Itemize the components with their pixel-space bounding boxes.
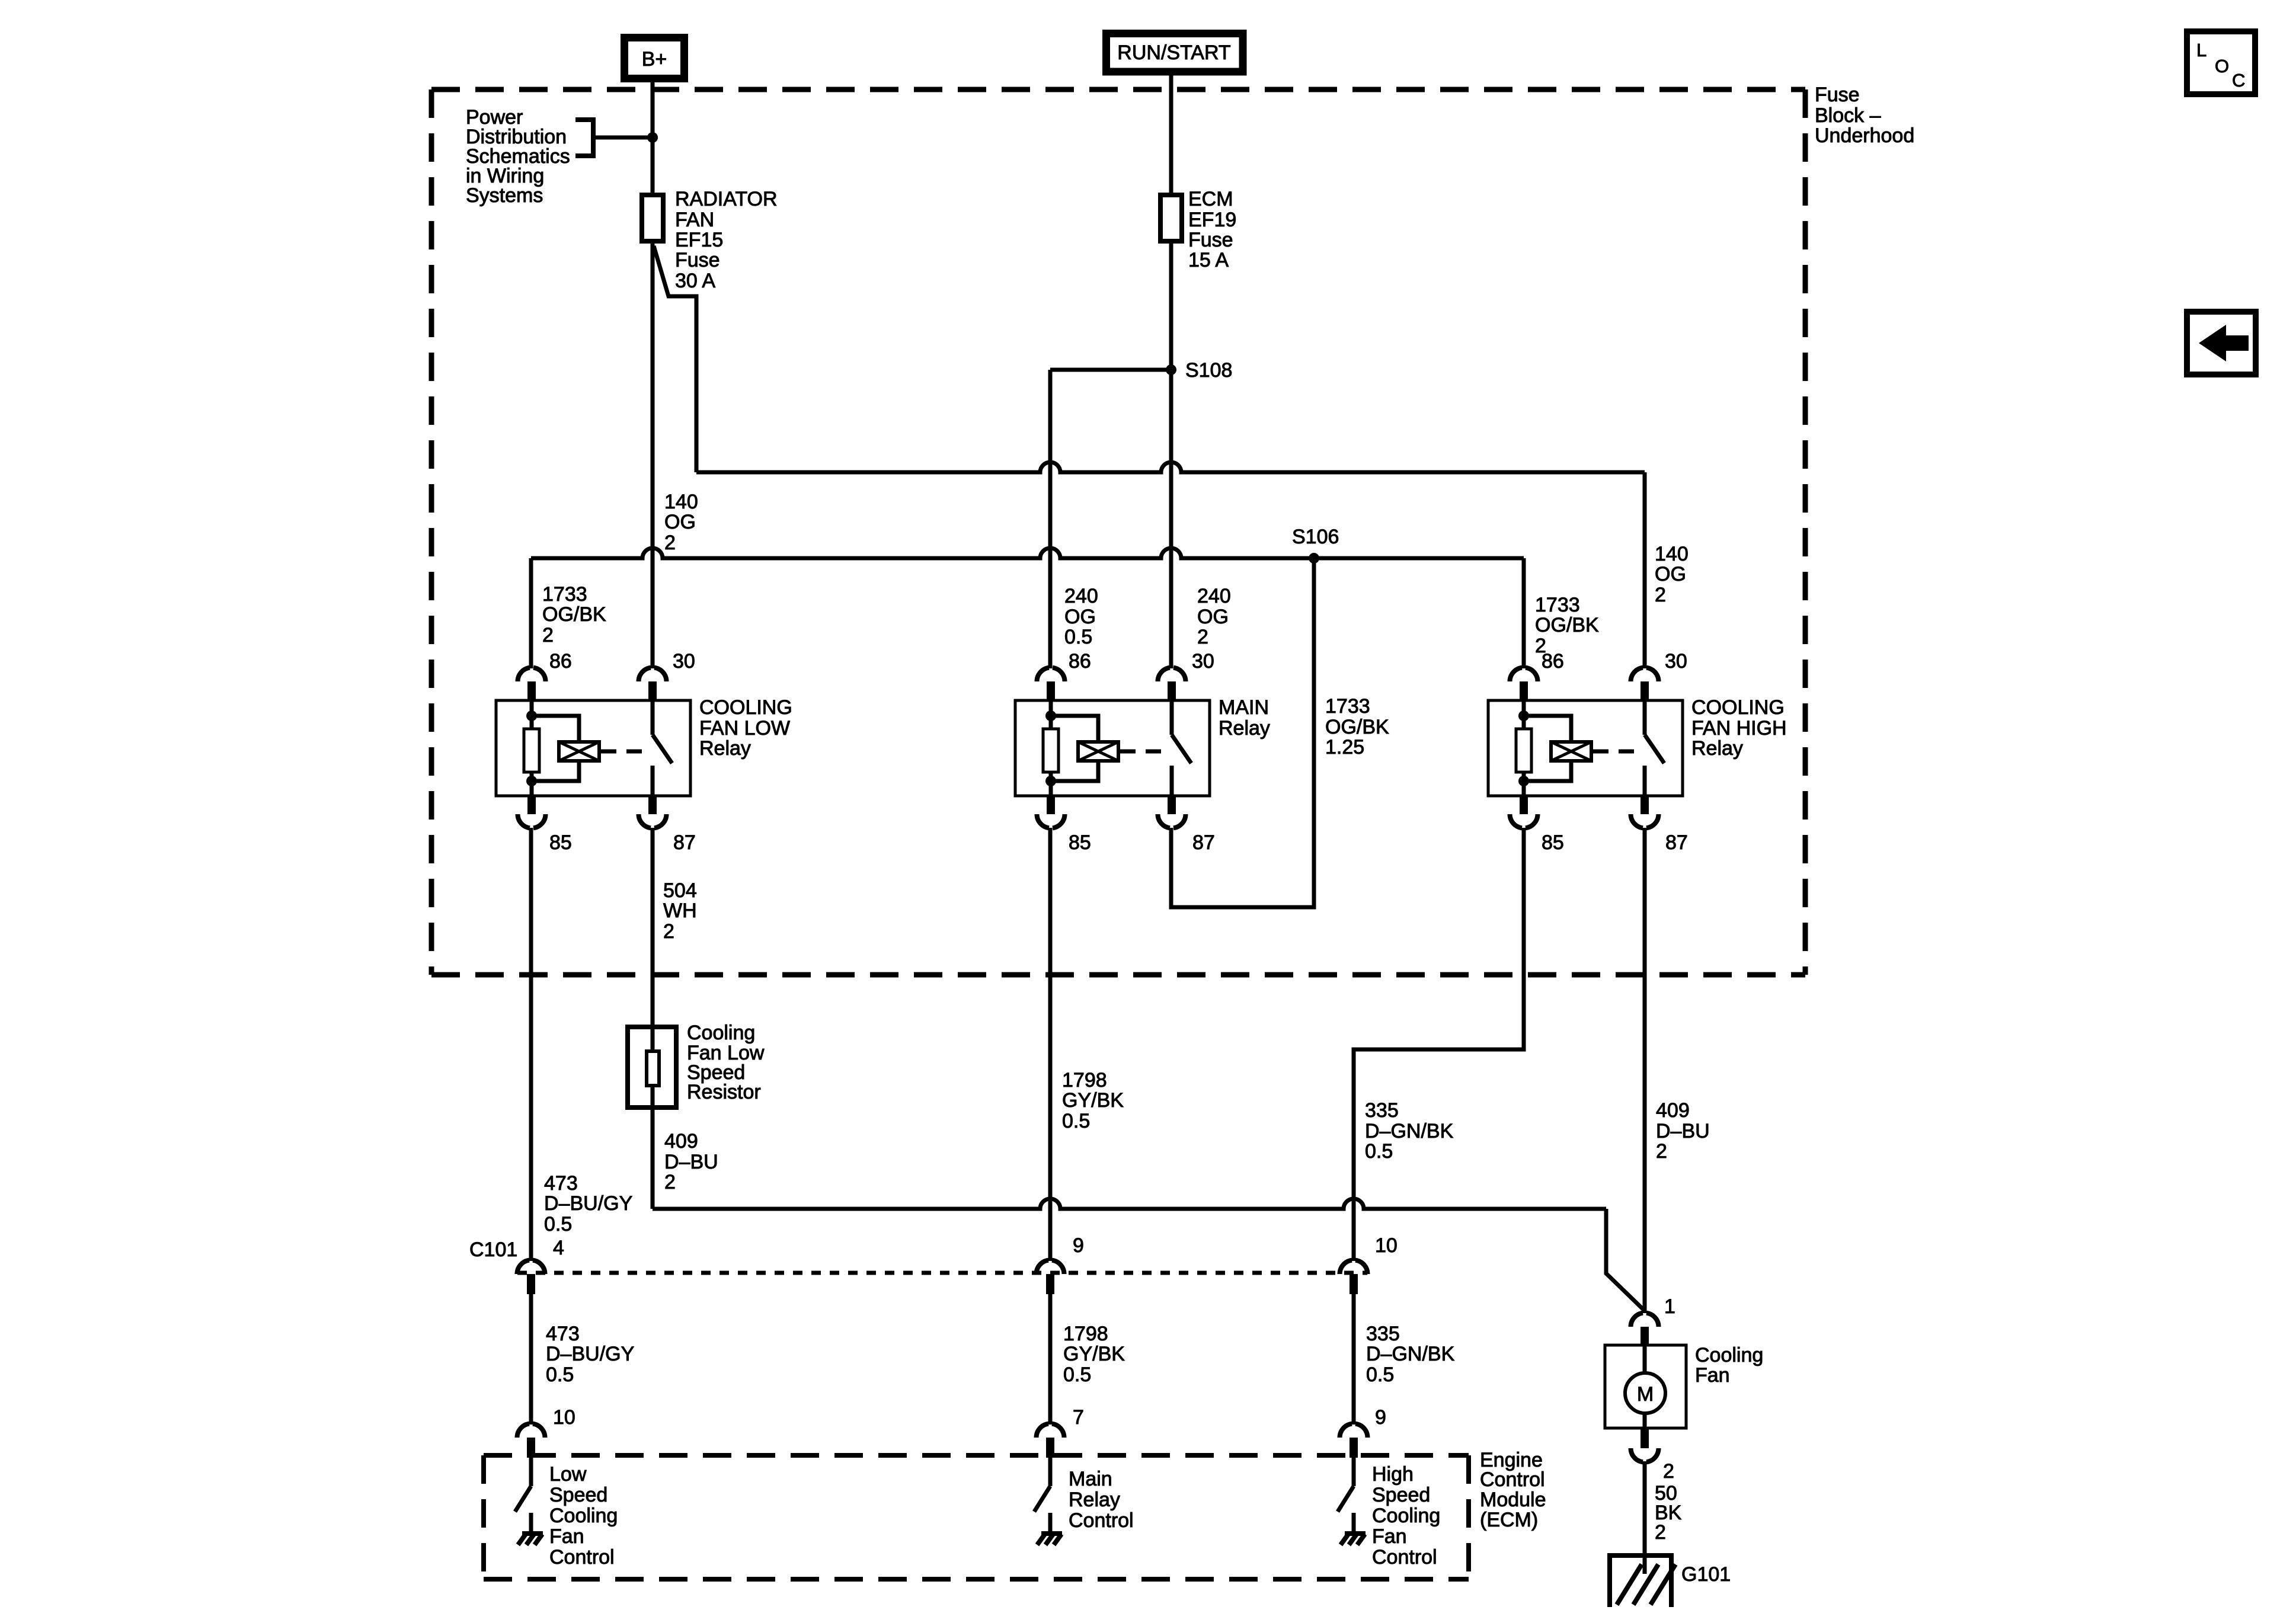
svg-text:0.5: 0.5 bbox=[1063, 1363, 1091, 1386]
label main relay K2 name bbox=[1219, 696, 1270, 740]
svg-text:1798: 1798 bbox=[1062, 1069, 1107, 1092]
relay cooling fan high relay K3 body with coil and switch bbox=[1488, 700, 1683, 796]
cooling fan low relay K1 pin 85 connector bbox=[518, 795, 572, 854]
svg-text:Cooling: Cooling bbox=[1695, 1344, 1763, 1366]
svg-text:30 A: 30 A bbox=[675, 270, 715, 292]
svg-text:Control: Control bbox=[1480, 1468, 1545, 1491]
svg-text:409: 409 bbox=[1656, 1099, 1690, 1122]
cooling fan low speed resistor bbox=[628, 1027, 676, 1108]
wire B+ to fuse EF15 bbox=[651, 80, 655, 195]
cooling fan low relay K1 pin 86 connector bbox=[518, 650, 572, 702]
svg-text:Speed: Speed bbox=[1372, 1484, 1430, 1506]
label High Speed Cooling Fan Control bbox=[1372, 1463, 1440, 1569]
wire fuse EF15 to cooling fan low relay pin 30 bbox=[651, 244, 655, 668]
svg-text:409: 409 bbox=[664, 1130, 698, 1153]
svg-text:87: 87 bbox=[1192, 831, 1215, 854]
label 240 OG 2 bbox=[1197, 585, 1231, 648]
svg-text:Resistor: Resistor bbox=[687, 1081, 761, 1103]
svg-text:85: 85 bbox=[549, 831, 572, 854]
main relay K2 pin 87 connector bbox=[1158, 795, 1215, 854]
svg-text:140: 140 bbox=[664, 491, 698, 513]
svg-text:2: 2 bbox=[1197, 626, 1208, 648]
ECM pin 9 connector bbox=[1340, 1406, 1386, 1458]
svg-text:1733: 1733 bbox=[1325, 695, 1370, 718]
wire RUN/START to fuse EF19 bbox=[1169, 75, 1173, 195]
wire cooling fan low relay pin 85 to C101 pin 4 bbox=[529, 828, 533, 1261]
wire main relay pin 87 to S106 (1733 OG/BK 1.25) bbox=[1171, 558, 1314, 907]
svg-text:Relay: Relay bbox=[1219, 717, 1270, 740]
svg-text:Cooling: Cooling bbox=[549, 1505, 618, 1527]
svg-text:0.5: 0.5 bbox=[1366, 1363, 1394, 1386]
fuse EF19 ECM 15A bbox=[1160, 195, 1182, 241]
ECM high speed cooling fan control switch and ground bbox=[1338, 1458, 1366, 1545]
svg-text:2: 2 bbox=[1656, 1140, 1667, 1163]
svg-text:86: 86 bbox=[1542, 650, 1564, 673]
svg-text:(ECM): (ECM) bbox=[1480, 1509, 1538, 1531]
svg-text:0.5: 0.5 bbox=[544, 1213, 572, 1235]
svg-text:G101: G101 bbox=[1681, 1563, 1731, 1586]
label 335 D-GN/BK 0.5 upper bbox=[1365, 1099, 1454, 1163]
svg-text:Module: Module bbox=[1480, 1489, 1546, 1511]
wire S108 branch left bbox=[1050, 368, 1171, 372]
svg-text:9: 9 bbox=[1375, 1406, 1386, 1429]
cooling fan low relay K1 pin 87 connector bbox=[639, 795, 696, 854]
svg-text:GY/BK: GY/BK bbox=[1062, 1089, 1124, 1112]
svg-text:240: 240 bbox=[1197, 585, 1231, 607]
svg-text:1.25: 1.25 bbox=[1325, 736, 1364, 758]
label cooling fan high relay K3 name bbox=[1691, 696, 1787, 760]
wire C101 pin 9 to ECM pin 7 bbox=[1048, 1294, 1053, 1425]
svg-text:335: 335 bbox=[1365, 1099, 1399, 1122]
connector C101 dotted line bbox=[469, 1238, 1367, 1273]
label ECM EF19 Fuse 15 A bbox=[1188, 188, 1236, 271]
junction dot on B+ feed bbox=[647, 132, 658, 143]
cooling fan motor M1 bbox=[1605, 1345, 1686, 1428]
wire jog fuse EF15 to high-speed feed bbox=[654, 246, 696, 472]
wire cooling fan low relay pin 87 to resistor (504 WH) bbox=[651, 828, 655, 1026]
label 409 D-BU 2 left bbox=[664, 1130, 718, 1193]
main relay K2 pin 85 connector bbox=[1037, 795, 1091, 854]
label 50 BK 2 bbox=[1655, 1482, 1682, 1544]
svg-text:MAIN: MAIN bbox=[1219, 696, 1269, 719]
svg-text:EF15: EF15 bbox=[675, 229, 723, 251]
svg-text:Fan: Fan bbox=[1695, 1364, 1730, 1387]
C101 pin 10 connector bbox=[1340, 1234, 1398, 1294]
back arrow icon box bbox=[2187, 312, 2256, 375]
svg-text:GY/BK: GY/BK bbox=[1063, 1343, 1125, 1365]
svg-text:D–BU: D–BU bbox=[1656, 1120, 1710, 1142]
svg-text:30: 30 bbox=[1192, 650, 1214, 673]
svg-text:1733: 1733 bbox=[542, 583, 587, 606]
svg-text:2: 2 bbox=[542, 624, 554, 646]
svg-text:Underhood: Underhood bbox=[1815, 124, 1914, 147]
svg-text:COOLING: COOLING bbox=[1691, 696, 1785, 719]
label 1798 GY/BK 0.5 lower bbox=[1063, 1323, 1125, 1386]
svg-text:FAN: FAN bbox=[675, 209, 714, 231]
note Power Distribution Schematics in Wiring Systems bbox=[466, 106, 570, 207]
svg-text:RADIATOR: RADIATOR bbox=[675, 188, 778, 210]
LOC reference icon box bbox=[2187, 31, 2255, 94]
svg-text:87: 87 bbox=[673, 831, 696, 854]
svg-text:2: 2 bbox=[1663, 1460, 1674, 1483]
svg-text:RUN/START: RUN/START bbox=[1117, 41, 1230, 64]
svg-text:OG: OG bbox=[664, 511, 696, 533]
label Main Relay Control bbox=[1069, 1468, 1134, 1532]
label 1733 OG/BK 2 left bbox=[542, 583, 606, 646]
label RADIATOR FAN EF15 Fuse 30 A bbox=[675, 188, 778, 292]
svg-text:M: M bbox=[1637, 1383, 1654, 1406]
svg-text:0.5: 0.5 bbox=[1062, 1110, 1090, 1132]
svg-text:D–BU/GY: D–BU/GY bbox=[544, 1192, 632, 1215]
ECM low speed cooling fan control switch and ground bbox=[515, 1458, 543, 1545]
relay cooling fan low relay K1 body with coil and switch bbox=[496, 700, 690, 796]
svg-text:2: 2 bbox=[664, 532, 676, 554]
wire C101 pin 10 to ECM pin 9 bbox=[1352, 1294, 1356, 1425]
ECM pin 7 connector bbox=[1037, 1406, 1084, 1458]
svg-text:2: 2 bbox=[1655, 584, 1666, 606]
svg-text:86: 86 bbox=[549, 650, 572, 673]
svg-text:Relay: Relay bbox=[1069, 1489, 1120, 1511]
cooling fan high relay K3 pin 87 connector bbox=[1631, 795, 1688, 854]
label 1733 OG/BK 1.25 bbox=[1325, 695, 1389, 758]
label Engine Control Module (ECM) bbox=[1480, 1449, 1546, 1531]
svg-text:Control: Control bbox=[1069, 1509, 1134, 1532]
svg-text:1733: 1733 bbox=[1535, 594, 1580, 616]
wire C101 pin 4 to ECM pin 10 bbox=[529, 1294, 533, 1425]
label 335 D-GN/BK 0.5 lower bbox=[1366, 1323, 1455, 1386]
svg-text:2: 2 bbox=[663, 920, 674, 943]
cooling fan high relay K3 pin 85 connector bbox=[1510, 795, 1564, 854]
svg-text:504: 504 bbox=[663, 879, 697, 902]
cooling fan high relay K3 pin 86 connector bbox=[1510, 650, 1564, 702]
svg-text:L: L bbox=[2196, 40, 2207, 60]
label 1798 GY/BK 0.5 upper bbox=[1062, 1069, 1124, 1132]
wire cooling fan high relay pin 85 to C101 pin 10 (335 D-GN/BK) bbox=[1354, 828, 1524, 1261]
power terminal B+ box bbox=[625, 38, 685, 79]
svg-text:1: 1 bbox=[1664, 1295, 1675, 1318]
svg-text:D–GN/BK: D–GN/BK bbox=[1366, 1343, 1455, 1365]
svg-text:O: O bbox=[2215, 56, 2229, 76]
wire S108 to main relay pin 86 bbox=[1048, 370, 1053, 668]
fuse EF15 RADIATOR FAN 30A bbox=[642, 195, 663, 241]
svg-text:Relay: Relay bbox=[1691, 737, 1743, 760]
svg-text:Fuse: Fuse bbox=[1188, 229, 1233, 251]
svg-text:WH: WH bbox=[663, 900, 697, 922]
C101 pin 9 connector bbox=[1037, 1234, 1084, 1294]
svg-text:ECM: ECM bbox=[1188, 188, 1233, 210]
svg-text:C: C bbox=[2232, 70, 2245, 91]
svg-text:Fan: Fan bbox=[1372, 1525, 1407, 1548]
svg-text:240: 240 bbox=[1064, 585, 1098, 607]
motor pin 1 connector bbox=[1631, 1295, 1675, 1345]
svg-text:2: 2 bbox=[1655, 1521, 1666, 1544]
svg-text:87: 87 bbox=[1665, 831, 1688, 854]
label Fuse Block - Underhood bbox=[1815, 84, 1914, 147]
svg-text:140: 140 bbox=[1655, 543, 1689, 565]
svg-text:7: 7 bbox=[1073, 1406, 1084, 1429]
svg-text:Cooling: Cooling bbox=[687, 1022, 755, 1044]
svg-text:86: 86 bbox=[1069, 650, 1091, 673]
engine control module dashed box bbox=[484, 1455, 1469, 1579]
svg-text:1798: 1798 bbox=[1063, 1323, 1108, 1345]
label G101 bbox=[1681, 1563, 1731, 1586]
power terminal RUN/START box bbox=[1107, 34, 1243, 72]
ECM pin 10 connector bbox=[517, 1406, 575, 1458]
svg-text:OG: OG bbox=[1655, 563, 1686, 585]
wire main relay pin 85 to C101 pin 9 (1798 GY/BK) bbox=[1048, 828, 1053, 1261]
svg-text:Control: Control bbox=[549, 1546, 615, 1569]
svg-text:Systems: Systems bbox=[466, 184, 543, 207]
svg-text:0.5: 0.5 bbox=[1365, 1140, 1393, 1163]
svg-text:Fuse: Fuse bbox=[1815, 84, 1860, 106]
label 473 D-BU/GY 0.5 upper bbox=[544, 1172, 632, 1235]
wire cooling fan high relay pin 87 to motor pin 1 (409 D-BU) bbox=[1643, 828, 1647, 1313]
svg-text:473: 473 bbox=[544, 1172, 578, 1195]
svg-text:OG/BK: OG/BK bbox=[1535, 614, 1599, 636]
fuse block underhood dashed border bbox=[431, 89, 1805, 975]
svg-text:OG/BK: OG/BK bbox=[542, 603, 606, 626]
node S108 bbox=[1166, 359, 1232, 382]
svg-text:Low: Low bbox=[549, 1463, 587, 1486]
C101 pin 4 connector bbox=[517, 1237, 564, 1294]
svg-text:0.5: 0.5 bbox=[1064, 626, 1092, 648]
label 1733 OG/BK 2 right bbox=[1535, 594, 1599, 657]
svg-text:30: 30 bbox=[1665, 650, 1687, 673]
ground G101 symbol bbox=[1607, 1553, 1675, 1607]
svg-text:Fuse: Fuse bbox=[675, 249, 720, 271]
label cooling fan low relay K1 name bbox=[699, 696, 792, 760]
svg-text:OG: OG bbox=[1197, 606, 1229, 628]
cooling fan high relay K3 pin 30 connector bbox=[1631, 650, 1687, 702]
main relay K2 pin 30 connector bbox=[1158, 650, 1214, 702]
wire resistor to cooling fan motor (409 D-BU) bbox=[653, 1108, 1645, 1311]
svg-text:Cooling: Cooling bbox=[1372, 1505, 1440, 1527]
svg-text:10: 10 bbox=[1375, 1234, 1398, 1257]
label Low Speed Cooling Fan Control bbox=[549, 1463, 618, 1569]
svg-text:15 A: 15 A bbox=[1188, 249, 1229, 271]
svg-text:D–GN/BK: D–GN/BK bbox=[1365, 1120, 1454, 1142]
svg-text:85: 85 bbox=[1069, 831, 1091, 854]
svg-text:Fan: Fan bbox=[549, 1525, 584, 1548]
motor pin 2 connector bbox=[1631, 1428, 1674, 1483]
svg-text:Main: Main bbox=[1069, 1468, 1112, 1490]
svg-text:4: 4 bbox=[553, 1237, 564, 1259]
svg-text:OG: OG bbox=[1064, 606, 1096, 628]
wire motor to ground G101 (50 BK) bbox=[1643, 1461, 1647, 1553]
svg-text:FAN LOW: FAN LOW bbox=[699, 717, 790, 740]
cooling fan low relay K1 pin 30 connector bbox=[639, 650, 695, 702]
svg-text:FAN HIGH: FAN HIGH bbox=[1691, 717, 1787, 740]
label 140 OG 2 left bbox=[664, 491, 698, 554]
svg-text:Speed: Speed bbox=[549, 1484, 607, 1506]
label 504 WH 2 bbox=[663, 879, 697, 943]
svg-text:Relay: Relay bbox=[699, 737, 751, 760]
svg-text:B+: B+ bbox=[642, 48, 667, 71]
label Cooling Fan bbox=[1695, 1344, 1763, 1387]
svg-text:335: 335 bbox=[1366, 1323, 1400, 1345]
svg-text:COOLING: COOLING bbox=[699, 696, 792, 719]
svg-text:Control: Control bbox=[1372, 1546, 1437, 1569]
wire bus to cooling fan high relay pin 30 (140 OG right) bbox=[696, 462, 1645, 668]
node S106 bbox=[1292, 526, 1339, 564]
svg-text:2: 2 bbox=[664, 1171, 676, 1193]
svg-text:0.5: 0.5 bbox=[546, 1363, 574, 1386]
svg-text:High: High bbox=[1372, 1463, 1414, 1486]
svg-text:C101: C101 bbox=[469, 1238, 517, 1261]
wire fuse EF19 to main relay pin 30 bbox=[1169, 244, 1173, 668]
main relay K2 pin 86 connector bbox=[1037, 650, 1091, 702]
svg-text:S106: S106 bbox=[1292, 526, 1339, 548]
wire bus main relay output to fan relay coils (1733 OG/BK) bbox=[531, 548, 1524, 668]
wire bracket to B+ feed bbox=[593, 136, 653, 140]
ECM main relay control switch and ground bbox=[1034, 1458, 1062, 1545]
svg-text:EF19: EF19 bbox=[1188, 209, 1236, 231]
svg-text:10: 10 bbox=[553, 1406, 575, 1429]
svg-text:9: 9 bbox=[1073, 1234, 1084, 1257]
label 140 OG 2 right bbox=[1655, 543, 1689, 606]
svg-text:S108: S108 bbox=[1185, 359, 1232, 382]
label Cooling Fan Low Speed Resistor bbox=[687, 1022, 765, 1103]
svg-text:85: 85 bbox=[1542, 831, 1564, 854]
svg-text:D–BU/GY: D–BU/GY bbox=[546, 1343, 634, 1365]
svg-text:OG/BK: OG/BK bbox=[1325, 716, 1389, 738]
label 240 OG 0.5 bbox=[1064, 585, 1098, 648]
label 409 D-BU 2 right bbox=[1656, 1099, 1710, 1163]
svg-text:30: 30 bbox=[673, 650, 695, 673]
label 473 D-BU/GY 0.5 lower bbox=[546, 1323, 634, 1386]
bracket to power distribution note bbox=[575, 120, 593, 156]
svg-text:D–BU: D–BU bbox=[664, 1151, 718, 1173]
svg-text:473: 473 bbox=[546, 1323, 580, 1345]
svg-text:Block –: Block – bbox=[1815, 104, 1881, 127]
relay main relay K2 body with coil and switch bbox=[1015, 700, 1210, 796]
